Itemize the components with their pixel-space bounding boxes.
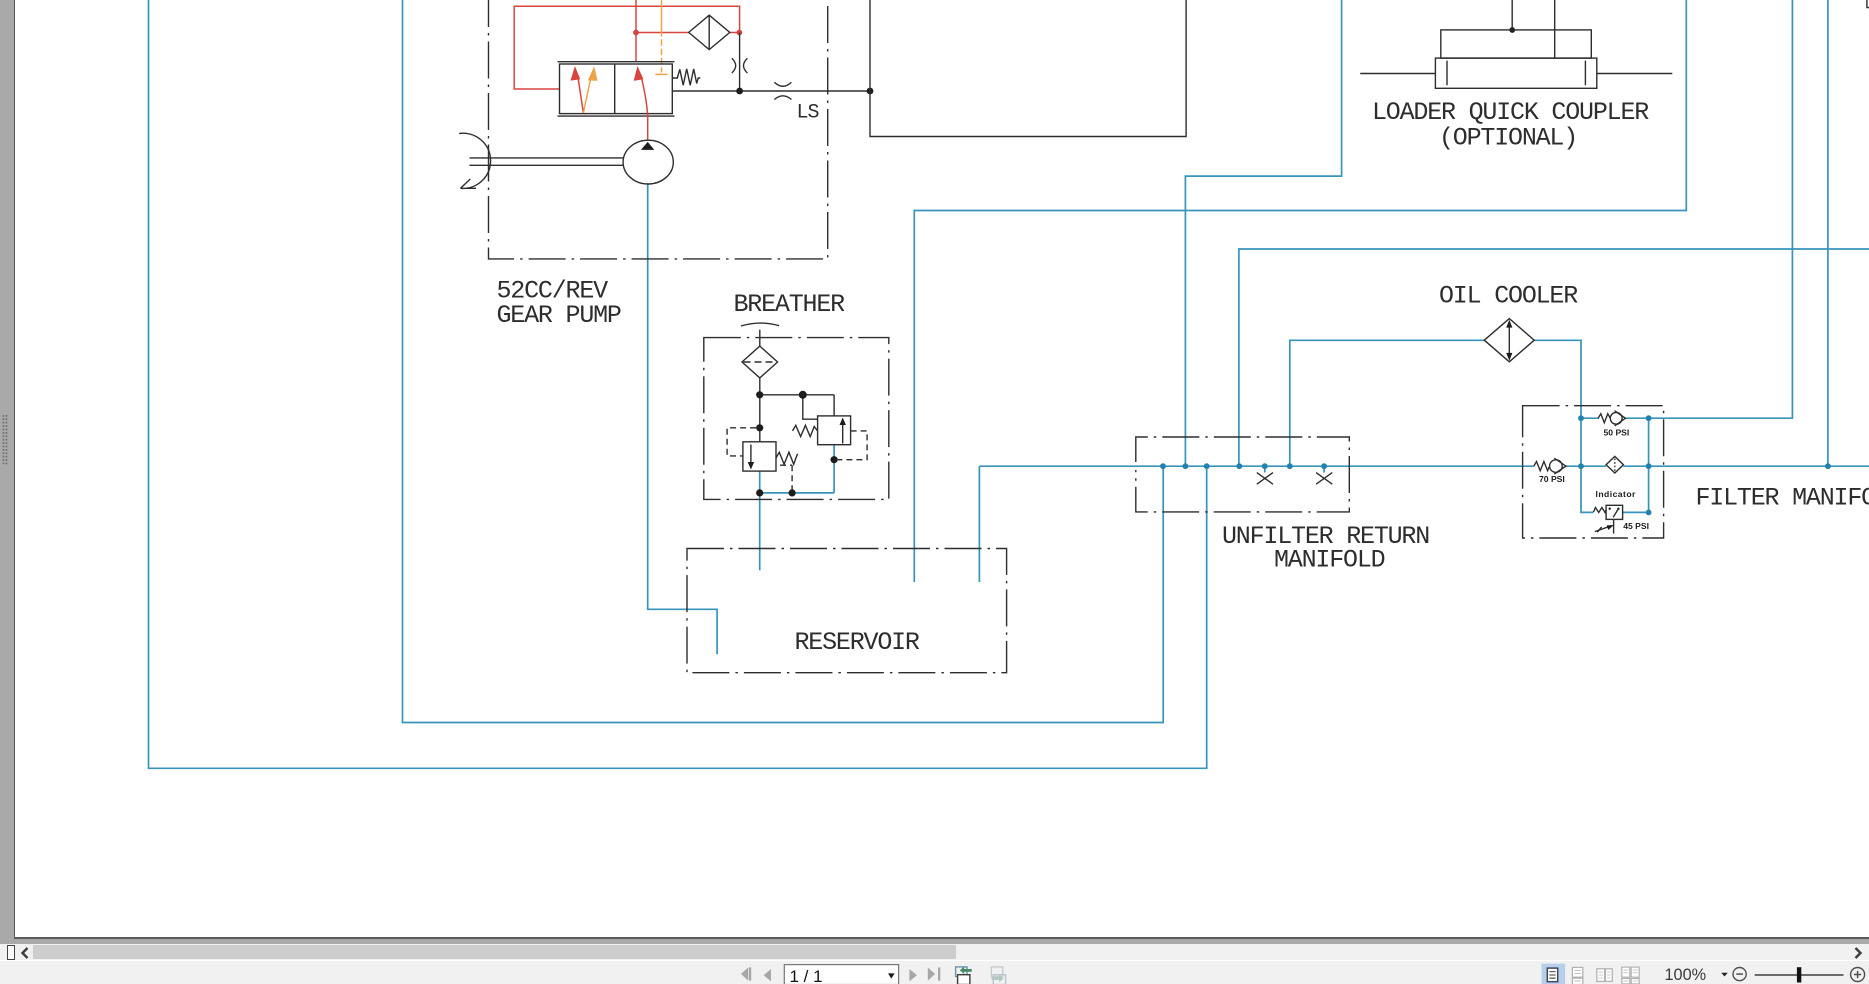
breather relief upper pilot (dashed) xyxy=(838,431,867,460)
breather lower drain (dashed) xyxy=(780,465,792,489)
node LS junction xyxy=(736,88,873,95)
wire breather relief drain xyxy=(760,445,834,493)
partial component at right edge xyxy=(1867,0,1869,8)
label 70 PSI xyxy=(1539,474,1565,484)
wire manifold to reservoir xyxy=(978,466,980,582)
breather label xyxy=(734,290,846,319)
plugged port X 2 xyxy=(1316,473,1332,485)
gear pump enclosure (dash-dot) xyxy=(489,0,828,259)
loader quick coupler supply stub xyxy=(1511,0,1513,30)
svg-text:Indicator: Indicator xyxy=(1596,489,1637,499)
wire case drain to reservoir xyxy=(914,0,1686,582)
prev page button xyxy=(764,969,771,981)
svg-text:LS: LS xyxy=(797,102,820,125)
wire oil cooler outlet to right edge xyxy=(1239,249,1869,466)
loader quick coupler upper block xyxy=(1441,30,1592,58)
valve spring xyxy=(672,69,700,85)
unfilter return manifold enclosure (dash-dot) xyxy=(1136,437,1350,512)
svg-text:50 PSI: 50 PSI xyxy=(1604,428,1630,438)
first page button xyxy=(741,967,751,980)
node breather junctions xyxy=(756,391,838,497)
indicator switch box xyxy=(1606,505,1623,519)
wire orange LS pilot with plug xyxy=(655,0,667,74)
breather relief lower pilot (dashed) xyxy=(727,428,756,456)
loader quick coupler return stub xyxy=(1554,0,1556,58)
wire return line inner loop xyxy=(403,0,1164,723)
wire oil cooler to filter xyxy=(1534,340,1593,512)
previous view icon xyxy=(956,966,972,984)
indicator spring xyxy=(1594,508,1607,513)
continuous facing layout button xyxy=(1622,967,1639,984)
bottom dark border of content xyxy=(14,937,1869,939)
loader quick coupler body xyxy=(1435,58,1596,88)
zoom out button xyxy=(1733,967,1746,980)
svg-text:100%: 100% xyxy=(1665,966,1707,984)
single page layout button (active) xyxy=(1542,963,1566,984)
wire red pilot loop xyxy=(514,6,739,89)
breather filter diamond xyxy=(742,346,778,378)
breather enclosure (dash-dot) xyxy=(704,338,889,500)
node junction dots on 50psi and indicator lines xyxy=(1578,415,1651,515)
breather leader arc xyxy=(741,323,779,326)
wire 50psi spring stub xyxy=(1581,417,1599,419)
indicator drain stub xyxy=(1613,519,1615,533)
page number box xyxy=(784,964,898,984)
loader valve block box xyxy=(870,0,1186,137)
scrollbar thumb xyxy=(33,945,956,959)
wire plugged port stub 2 xyxy=(1323,466,1325,472)
oil cooler diamond xyxy=(1484,319,1534,362)
label 50 PSI xyxy=(1604,428,1630,438)
svg-text:GEAR PUMP: GEAR PUMP xyxy=(497,301,621,330)
wire filter inlet from top xyxy=(1827,0,1829,466)
pump rotation arrow xyxy=(459,133,490,188)
breather relief valve upper arrow xyxy=(840,418,846,444)
pump outlet triangle xyxy=(641,142,654,150)
valve left cell orange arrow xyxy=(583,66,597,113)
wire breather drain to reservoir xyxy=(759,471,761,570)
reservoir label xyxy=(795,628,920,657)
node coupler junction xyxy=(1509,27,1515,33)
node red junction dots xyxy=(633,30,742,36)
filter manifold label xyxy=(1696,484,1869,513)
sidebar dark border xyxy=(14,0,16,938)
node junction dots on manifold line xyxy=(1160,463,1831,469)
svg-text:BREATHER: BREATHER xyxy=(734,290,846,319)
wire indicator right rail xyxy=(1623,418,1649,512)
loader quick coupler inner ticks xyxy=(1447,61,1585,86)
scrollbar right arrow xyxy=(1848,946,1866,960)
scrollbar left arrow xyxy=(17,946,35,960)
last page button xyxy=(928,967,941,980)
breather relief valve lower spring xyxy=(776,452,798,464)
wire 50psi bypass line xyxy=(1625,0,1792,418)
LS label xyxy=(797,102,820,125)
svg-text:45 PSI: 45 PSI xyxy=(1623,521,1649,531)
compensator valve body xyxy=(558,62,675,116)
label 45 PSI xyxy=(1623,521,1649,531)
toolbar xyxy=(0,961,1869,984)
breather relief valve lower body xyxy=(743,442,776,471)
svg-text:(OPTIONAL): (OPTIONAL) xyxy=(1439,124,1577,153)
gear pump circle xyxy=(623,140,673,184)
scrollbar corner white box xyxy=(7,945,14,961)
wire pilot tap L xyxy=(803,395,818,419)
svg-text:RESERVOIR: RESERVOIR xyxy=(795,628,920,657)
oil cooler internal arrows xyxy=(1506,320,1512,361)
svg-text:OIL COOLER: OIL COOLER xyxy=(1439,282,1578,311)
filter bypass diamond xyxy=(1606,456,1623,473)
wire oil cooler inlet xyxy=(1290,340,1485,466)
scrollbar row xyxy=(0,944,1869,960)
breather main drop line xyxy=(759,378,761,442)
pilot filter diamond xyxy=(689,15,730,49)
zoom in button xyxy=(1851,967,1865,981)
continuous layout button xyxy=(1572,967,1582,984)
svg-text:1 / 1: 1 / 1 xyxy=(790,966,823,984)
LS orifice xyxy=(774,82,791,99)
loader quick coupler side lines xyxy=(1360,73,1672,75)
breather relief valve upper body xyxy=(818,416,851,445)
orifice below pilot filter xyxy=(732,33,748,92)
zoom percent label xyxy=(1665,966,1728,984)
indicator adjust arrow xyxy=(1595,525,1614,532)
pump drive shaft xyxy=(470,158,624,165)
gear pump label xyxy=(497,277,621,331)
wire work port return xyxy=(1185,0,1341,466)
valve right cell red arrow xyxy=(634,66,648,141)
filter manifold enclosure (dash-dot) xyxy=(1523,406,1664,538)
wire LS sense line xyxy=(672,90,870,92)
svg-text:70 PSI: 70 PSI xyxy=(1539,474,1565,484)
wire breather branch xyxy=(760,395,834,416)
valve left cell red arrow xyxy=(571,66,584,113)
check valve 70 PSI spring xyxy=(1534,462,1550,471)
next page button xyxy=(909,969,917,981)
wire red LS supply vertical xyxy=(635,0,637,62)
breather stem xyxy=(759,330,761,346)
loader quick coupler label xyxy=(1372,98,1649,153)
wire main return manifold line xyxy=(979,465,1869,467)
svg-text:FILTER MANIFOLD: FILTER MANIFOLD xyxy=(1696,484,1869,513)
oil cooler label xyxy=(1439,282,1578,311)
svg-text:MANIFOLD: MANIFOLD xyxy=(1274,546,1385,575)
toolbar icons svg xyxy=(0,961,1869,984)
plugged port X 1 xyxy=(1257,473,1273,485)
left sidebar strip xyxy=(0,0,14,944)
breather relief valve upper spring xyxy=(793,425,818,436)
check valve 70 PSI ball and seat xyxy=(1550,458,1566,474)
wire plugged port stub 1 xyxy=(1264,466,1266,472)
wire red to pilot filter xyxy=(636,32,739,34)
wire return line left outer loop xyxy=(149,0,1207,768)
gray strip below content xyxy=(0,939,1869,945)
label Indicator xyxy=(1596,489,1637,499)
next view icon (disabled) xyxy=(991,966,1005,984)
sidebar splitter dots xyxy=(0,414,10,466)
facing layout button xyxy=(1597,968,1613,981)
breather relief valve lower arrow xyxy=(748,445,754,470)
zoom slider xyxy=(1755,967,1844,982)
unfilter return manifold label xyxy=(1222,522,1429,575)
wire pump suction line xyxy=(648,184,717,654)
check valve 50 PSI ball and seat xyxy=(1610,411,1625,426)
check valve 50 PSI spring xyxy=(1598,414,1610,423)
reservoir enclosure (dash-dot) xyxy=(687,549,1007,673)
